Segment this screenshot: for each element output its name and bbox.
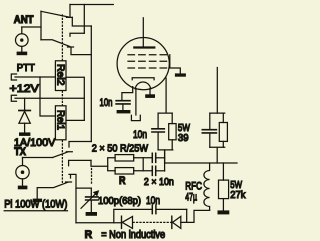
relay coil Rel1	[54, 106, 66, 140]
wire PTT to Rel1	[40, 77, 55, 116]
capacitor C5 10n	[152, 113, 164, 150]
label ANT	[14, 14, 34, 26]
wire output join	[164, 150, 166, 171]
wire bracket bottom	[210, 147, 225, 163]
capacitor C2 10n	[152, 153, 164, 162]
wire junction cathode branch	[158, 150, 173, 163]
contact S2a lower fixed	[69, 160, 91, 165]
svg-text:TX: TX	[14, 146, 26, 158]
relay contact S1b blade	[41, 40, 74, 47]
contact S1b upper fixed	[70, 33, 84, 36]
svg-text:39: 39	[178, 132, 189, 144]
label +12V	[10, 83, 40, 95]
label PTT	[17, 62, 36, 74]
wire join R1 R2	[142, 158, 144, 171]
ground (idle blade)	[33, 199, 42, 203]
inductor RFC 47u	[204, 163, 210, 210]
svg-text:Pi 100W (10W): Pi 100W (10W)	[4, 198, 67, 210]
grid g2	[128, 60, 168, 62]
wire S1b lower contact lead	[71, 47, 91, 54]
wire R2 out	[134, 170, 152, 172]
capacitor C1 100p variable	[86, 188, 99, 212]
capacitor C4 10n cathode bypass	[116, 101, 130, 110]
dotted link diode string	[133, 221, 171, 223]
cathode bar	[132, 78, 154, 80]
contact S1a upper fixed	[69, 5, 71, 17]
relay contact S2a blade	[53, 152, 73, 158]
wire Rel1 to +12V	[66, 119, 84, 121]
filament right leg	[149, 89, 151, 95]
ground (grid)	[175, 73, 186, 76]
capacitor C3 10n	[152, 166, 164, 175]
arrow (variable)	[81, 190, 99, 208]
wire pole riser	[40, 11, 42, 40]
ground (ANT jack)	[17, 52, 28, 56]
wire PTT to Rel2	[15, 76, 55, 78]
svg-text:= Non inductive: = Non inductive	[101, 229, 165, 241]
svg-text:Rel1: Rel1	[54, 110, 65, 130]
ground (diode D1)	[19, 132, 30, 136]
wire main vertical node A	[90, 26, 92, 142]
connector PTT	[11, 74, 16, 80]
wire bracket top	[210, 112, 225, 114]
label 1A/100V	[14, 137, 56, 149]
svg-text:100p(68p): 100p(68p)	[98, 195, 141, 207]
resistor R1 50R/25W	[115, 155, 134, 161]
wire to clamp diodes	[76, 222, 122, 224]
wire RX line top	[70, 4, 113, 6]
diode D2 clamp	[122, 216, 133, 228]
wire bottom link	[114, 209, 152, 222]
wire +12V rail	[15, 97, 84, 99]
resistor R3 39 5W	[169, 113, 176, 150]
wire anode top right	[216, 68, 218, 114]
svg-text:10n: 10n	[146, 195, 160, 207]
label Pi 100W (10W)	[4, 198, 67, 210]
connector J1 (ANT coax jack)	[15, 27, 28, 52]
wire grid to ground	[170, 55, 181, 74]
label 5W 27k	[230, 179, 246, 201]
mechanical link (dotted) relay armature	[61, 15, 63, 184]
anode lead	[142, 18, 144, 47]
vacuum tube V1 envelope	[117, 38, 169, 90]
label 10n (C5)	[133, 129, 147, 141]
relay contact S2b blade grounded	[37, 182, 71, 199]
filament left leg	[135, 89, 137, 116]
grid g1	[128, 54, 168, 56]
label 2 x 10n	[144, 176, 174, 188]
wire output line	[165, 162, 237, 164]
svg-text:47µ: 47µ	[185, 192, 197, 204]
connector J2 (TX coax jack)	[16, 158, 29, 186]
resistor R2 50R/25W	[115, 168, 134, 174]
contact S2a upper fixed	[69, 142, 91, 148]
svg-text:R: R	[119, 175, 126, 187]
label R (non inductive)	[119, 175, 126, 187]
relay coil Rel2	[54, 61, 66, 91]
anode plate	[134, 46, 154, 48]
wire to 100p	[76, 187, 91, 189]
ground (filament)	[145, 94, 155, 98]
capacitor C7 10n series	[152, 205, 186, 213]
svg-text:27k: 27k	[230, 189, 246, 201]
ground (C4)	[117, 110, 131, 113]
ground (27k)	[218, 210, 230, 214]
relay contact S1a blade	[41, 11, 72, 17]
label 2 x 50 R/25W	[92, 143, 148, 155]
svg-text:R: R	[85, 229, 93, 241]
resistor R4	[219, 113, 227, 147]
wire TX feed	[23, 157, 53, 159]
connector +12V	[11, 95, 16, 101]
diode D3 clamp	[172, 216, 181, 228]
wire attenuator input bracket	[108, 158, 115, 171]
svg-text:2 × 50 R/25W: 2 × 50 R/25W	[92, 143, 148, 155]
wire ANT to relay pole	[22, 26, 41, 28]
heater terminal	[131, 115, 140, 120]
diode D1 protection	[19, 98, 30, 132]
capacitor C6	[202, 113, 216, 147]
wire Rel2 to +12V	[66, 77, 84, 120]
svg-text:10n: 10n	[100, 97, 113, 109]
svg-text:+12V: +12V	[10, 83, 40, 95]
svg-text:Rel2: Rel2	[54, 64, 65, 86]
label 5W 39	[178, 122, 190, 144]
wire to attenuator input	[91, 160, 108, 166]
label R = Non inductive	[85, 229, 166, 241]
mechanical link (dotted) tuning	[91, 169, 93, 185]
svg-text:ANT: ANT	[14, 14, 34, 26]
svg-text:10n: 10n	[133, 129, 147, 141]
wire cathode bypass	[122, 87, 133, 101]
grid g3	[128, 67, 168, 69]
wire cathode down	[158, 78, 172, 113]
label 100p(68p)	[98, 195, 141, 207]
svg-text:PTT: PTT	[17, 62, 36, 74]
label 10n (C4)	[100, 97, 113, 109]
filament arc	[135, 82, 150, 89]
contact S2b fixed	[69, 174, 76, 222]
wire diode return	[181, 209, 210, 222]
resistor R5 27k 5W	[219, 163, 229, 210]
label 10n (C7)	[146, 195, 160, 207]
wire S1a lower contact lead	[72, 5, 91, 34]
ground (100p)	[86, 212, 97, 216]
label TX	[14, 146, 26, 158]
label RFC 47u	[185, 181, 202, 204]
wire R1 out	[134, 157, 152, 159]
svg-text:2 × 10n: 2 × 10n	[144, 176, 174, 188]
ground (TX jack)	[18, 186, 28, 190]
